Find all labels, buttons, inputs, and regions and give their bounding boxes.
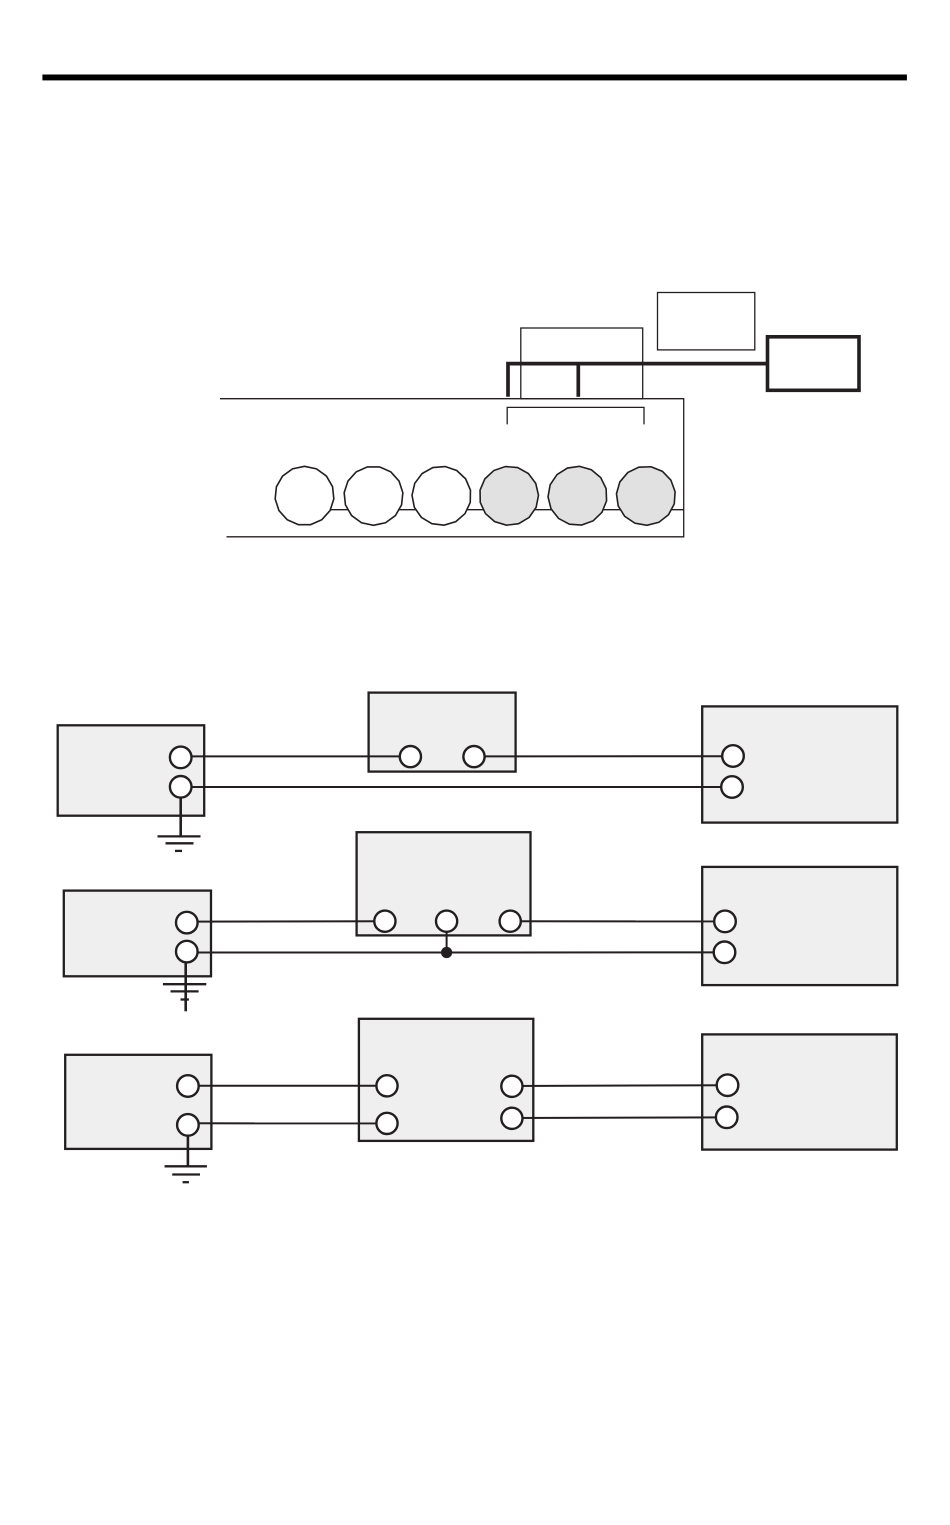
terminal L1b (170, 776, 192, 798)
source box D2 (64, 891, 211, 977)
terminal M3d (501, 1108, 522, 1129)
terminal row line (304, 509, 684, 511)
terminal 5 (shaded) (546, 464, 609, 526)
terminal R1b (721, 776, 743, 798)
ground bar 1 D1 (158, 835, 201, 837)
wire top-left D2 (187, 920, 385, 922)
ground bar 2 D3 (172, 1173, 200, 1175)
load box D2 (702, 867, 897, 985)
load box D1 (702, 706, 897, 822)
callout box A (521, 328, 643, 399)
thick bus drop (576, 364, 580, 397)
wire bottom D2 (187, 951, 725, 953)
terminal 2 (339, 461, 409, 530)
terminal M2c (500, 911, 521, 932)
group bracket (507, 407, 644, 424)
wire bottom D1 (181, 786, 732, 788)
wire top-right D3 (512, 1084, 728, 1087)
ground lead D3 (187, 1125, 190, 1166)
terminal 3 (409, 463, 474, 528)
wire top-right D1 (474, 755, 733, 757)
terminal M3a (376, 1075, 397, 1096)
ground bar 1 D2 (163, 983, 206, 985)
thick bus line (508, 364, 767, 397)
ground lead D2 (overshoot style) (184, 952, 187, 1012)
inline device box D1 (369, 693, 516, 772)
terminal L2b (176, 941, 198, 963)
terminal R2a (714, 911, 736, 933)
terminal L3a (177, 1075, 199, 1097)
terminal M1a (400, 746, 421, 767)
terminal M3b (376, 1113, 397, 1134)
ground bar 2 D2 (171, 990, 199, 992)
terminal M2b (436, 911, 457, 932)
source box D1 (58, 725, 205, 815)
interface box C (thick) (768, 337, 860, 391)
inline device box D3 (359, 1019, 533, 1141)
wire top-left D3 (188, 1085, 387, 1087)
junction dot D2 (441, 947, 452, 958)
ground bar 3 D2 (181, 998, 189, 1000)
terminal 1 (275, 466, 334, 524)
terminal M3c (501, 1076, 522, 1097)
wire bottom-right D3 (512, 1116, 727, 1119)
terminal R2b (714, 942, 736, 964)
terminal L1a (170, 747, 192, 769)
callout box B (658, 293, 755, 350)
wire top-left D1 (181, 755, 411, 757)
source box D3 (65, 1055, 211, 1149)
terminal block body (open left side) (220, 399, 684, 537)
junction stub D2 (446, 921, 448, 952)
terminal R3b (716, 1107, 738, 1129)
wire top-right D2 (510, 920, 725, 922)
ground bar 2 D1 (166, 842, 194, 844)
terminal L2a (176, 912, 198, 934)
header rule (42, 75, 907, 81)
terminal 4 (shaded) (473, 459, 546, 532)
terminal R3a (717, 1074, 739, 1096)
terminal 6 (shaded) (612, 462, 680, 530)
terminal R1a (722, 745, 744, 767)
ground bar 3 D1 (175, 850, 182, 852)
inline device box D2 (357, 832, 531, 935)
terminal M2a (374, 911, 395, 932)
ground lead D1 (179, 787, 182, 836)
wire bottom-left D3 (188, 1122, 387, 1124)
terminal M1b (463, 746, 484, 767)
terminal L3b (177, 1114, 199, 1136)
load box D3 (702, 1034, 897, 1149)
ground bar 1 D3 (165, 1165, 207, 1167)
ground bar 3 D3 (183, 1181, 189, 1183)
